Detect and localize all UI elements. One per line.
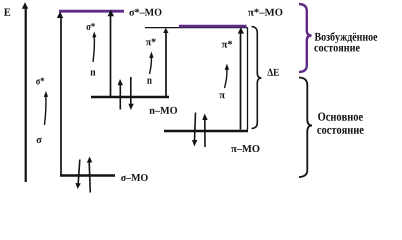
sigma-MO label — [121, 174, 148, 181]
annotation pi* (from pi) — [222, 41, 232, 48]
E axis — [22, 2, 28, 182]
delta-E label — [267, 69, 278, 76]
annotation pi (ground) — [219, 93, 224, 98]
pi*-MO level thin black line — [145, 27, 248, 29]
electron down-arrow on sigma-MO — [75, 160, 80, 190]
sigma-MO level — [60, 174, 115, 176]
transition arrow n to pi* (long) — [163, 28, 168, 96]
excited-state label line 2 — [314, 46, 359, 52]
electron down-arrow on pi-MO — [192, 113, 197, 147]
transition arrow sigma to sigma* (long) — [57, 12, 63, 175]
annotation arrow n to sigma* — [92, 32, 96, 63]
annotation arrow sigma to sigma* — [44, 91, 48, 125]
electron up-arrow on sigma-MO — [87, 157, 92, 193]
pi*-MO level (purple) — [179, 25, 247, 28]
electron up-arrow on n-MO — [118, 79, 123, 110]
pi-MO label — [231, 145, 259, 152]
energy gap line between pi and pi* — [247, 28, 249, 131]
sigma*-MO label — [129, 9, 161, 16]
transition arrow n to sigma* (long) — [108, 10, 114, 96]
annotation arrow pi to pi* — [225, 64, 230, 89]
pi-MO level — [164, 130, 248, 132]
annotation n (to sigma*) — [90, 70, 95, 75]
electron up-arrow on pi-MO — [202, 114, 207, 148]
annotation sigma (ground) — [37, 138, 42, 144]
annotation sigma* (from n) — [87, 23, 95, 30]
pi*-MO label — [248, 9, 282, 16]
ground-state label line 2 — [317, 128, 363, 134]
n-MO label — [149, 107, 177, 114]
transition arrow pi to pi* (long) — [238, 27, 244, 129]
excited-state label line 1 — [315, 32, 378, 43]
n-MO level — [91, 96, 169, 98]
annotation pi* (from n) — [146, 38, 156, 45]
axis label E — [4, 8, 10, 15]
ground-state bracket — [299, 78, 312, 178]
excited-state bracket (purple) — [299, 4, 312, 72]
electron down-arrow on n-MO — [128, 77, 133, 110]
sigma*-MO level (purple) — [59, 10, 124, 13]
annotation n (to pi*) — [147, 79, 152, 84]
delta-E bracket — [252, 27, 262, 129]
annotation arrow n to pi* — [149, 52, 153, 75]
ground-state label line 1 — [318, 112, 363, 120]
annotation sigma* (from sigma) — [36, 77, 44, 84]
